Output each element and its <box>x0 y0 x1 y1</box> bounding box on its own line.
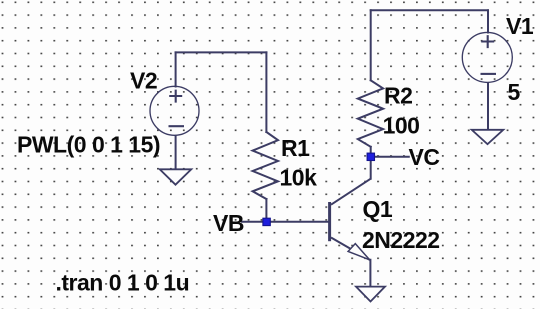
resistor R2 <box>358 80 383 147</box>
ground below V2 <box>160 169 192 184</box>
wire top-left horizontal <box>176 51 267 53</box>
svg-text:V1: V1 <box>506 13 534 39</box>
transistor Q1 <box>330 179 371 287</box>
wire top-right horizontal <box>371 9 488 11</box>
svg-text:2N2222: 2N2222 <box>362 227 440 253</box>
wire R1 bottom to node VB <box>265 199 267 222</box>
svg-text:R1: R1 <box>281 135 310 161</box>
wire base (VB to Q1 base) <box>242 221 328 223</box>
voltage source V2 <box>150 86 199 135</box>
wire VC label stub <box>375 156 409 158</box>
ground below Q1 emitter <box>356 287 385 302</box>
node VB <box>263 218 270 225</box>
wire down to R2 top <box>370 10 372 80</box>
svg-text:V2: V2 <box>130 67 157 93</box>
svg-text:5: 5 <box>508 79 521 105</box>
svg-text:R2: R2 <box>384 83 412 109</box>
wire V1 bottom stub <box>487 83 489 129</box>
svg-text:.tran 0 1 0 1u: .tran 0 1 0 1u <box>56 270 190 296</box>
wire R2 bottom to node VC <box>370 147 372 157</box>
svg-text:Q1: Q1 <box>363 196 393 222</box>
node VC <box>367 153 374 160</box>
wire VC node down to collector <box>370 157 372 179</box>
svg-text:VB: VB <box>213 210 244 236</box>
wire V2 bottom stub <box>175 137 177 169</box>
wire V2 top vertical <box>175 52 177 86</box>
wire down to R1 top <box>265 52 267 132</box>
svg-text:100: 100 <box>383 113 420 139</box>
ground below V1 <box>472 130 504 144</box>
resistor R1 <box>253 132 278 199</box>
svg-text:10k: 10k <box>280 165 318 191</box>
wire V1 top stub <box>487 10 489 32</box>
svg-text:VC: VC <box>409 144 440 170</box>
svg-text:PWL(0 0 1 15): PWL(0 0 1 15) <box>17 132 160 158</box>
voltage source V1 <box>462 32 512 82</box>
